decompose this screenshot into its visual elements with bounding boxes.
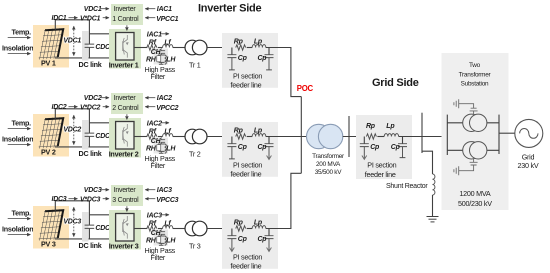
PV array block PV 3 (orange) (33, 206, 69, 249)
PV3 insolation input label (2, 224, 33, 233)
filter shaded band (154, 138, 169, 154)
VDC3 label (63, 219, 81, 226)
CH label (151, 230, 162, 237)
CDC label (95, 44, 111, 51)
IAC3 output label (147, 212, 162, 219)
svg-text:CDC: CDC (95, 44, 111, 51)
svg-text:Inverter 1: Inverter 1 (109, 61, 139, 70)
control block Inverter 3 Control (green) (111, 185, 143, 206)
PI section block 2 (gray) (222, 122, 278, 177)
PV2 temperature input label (12, 118, 32, 127)
svg-text:IDC2: IDC2 (52, 104, 67, 111)
filter shunt capacitor CH (157, 137, 165, 145)
svg-text:Temp.: Temp. (12, 27, 32, 36)
wire PV3+ to DC link (55, 201, 89, 211)
VDC1 measurement arrow (dashed, double-headed) (73, 26, 75, 55)
filter shunt capacitor CH (157, 229, 165, 237)
svg-text:RH: RH (146, 56, 157, 63)
wire DC link to inverter1 top input (89, 33, 115, 35)
svg-text:VDC2: VDC2 (84, 95, 102, 102)
svg-text:Inverter Side: Inverter Side (198, 3, 262, 15)
main transformer caption (312, 153, 345, 176)
transformer 2 neutral ground (454, 159, 478, 175)
transformer Tr 3 (185, 221, 207, 236)
inverter 2 block background (green) (109, 118, 141, 158)
V*DC1 to control arrow (103, 17, 109, 19)
svg-text:RH: RH (146, 145, 157, 152)
Tr 2 caption (189, 150, 201, 159)
filter inductor Lf (163, 45, 173, 48)
svg-text:Rp: Rp (234, 219, 244, 226)
grid PI series inductor Lp (384, 134, 398, 137)
PI section feeder line caption 3 (231, 252, 263, 270)
Lp label (254, 127, 263, 134)
wire PV3- bottom to inverter (55, 238, 116, 240)
RH label (146, 145, 157, 152)
svg-text:Rf: Rf (149, 40, 157, 47)
V*DC3 to control arrow (103, 198, 109, 200)
Rf label (149, 40, 157, 47)
High Pass Filter caption (145, 154, 176, 170)
VPCC3 feedback arrow into control (145, 198, 155, 200)
svg-text:Cp: Cp (370, 144, 380, 151)
VPCC2 feedback arrow into control (145, 106, 155, 108)
svg-text:Inverter 3: Inverter 3 (109, 242, 139, 251)
svg-text:1 Control: 1 Control (112, 16, 139, 23)
shunt reactor coil (433, 174, 435, 195)
PV1 insolation input label (2, 43, 33, 52)
svg-text:1200 MVA: 1200 MVA (459, 189, 490, 198)
PI1 shunt capacitor Cp (left) (227, 48, 236, 70)
svg-text:Cp: Cp (238, 55, 248, 62)
Tr 3 caption (189, 242, 201, 251)
PV2 temperature input arrow (8, 128, 31, 130)
svg-text:Insolation: Insolation (2, 43, 33, 52)
VDC1 label (63, 38, 81, 45)
shunt reactor branch wire (422, 151, 433, 174)
svg-text:Cp: Cp (391, 144, 401, 151)
grid Cp left label (370, 144, 380, 151)
Cp left label (238, 236, 248, 243)
grid PI series resistor Rp (366, 134, 376, 139)
wire grid PI to substation bus (403, 136, 448, 138)
svg-text:feeder line: feeder line (231, 80, 262, 89)
svg-text:PI section: PI section (233, 71, 262, 80)
Inverter 2 caption (109, 150, 139, 159)
svg-text:PI section: PI section (367, 160, 396, 169)
CDC label (95, 225, 111, 232)
grid PI shunt capacitor Cp (right) (398, 137, 407, 158)
Cp right label (258, 236, 268, 243)
VDC2 to control arrow (101, 97, 109, 99)
wire bus to substation transformer 1 (447, 122, 499, 124)
two transformer substation block (gray) (442, 53, 509, 210)
wire bus to substation transformer 2 (447, 149, 499, 151)
svg-text:Inverter 2: Inverter 2 (109, 150, 139, 159)
svg-text:Temp.: Temp. (12, 118, 32, 127)
PI section feeder line caption 1 (231, 71, 263, 89)
svg-text:Lp: Lp (254, 127, 263, 134)
Inverter 1 caption (109, 61, 139, 70)
Grid caption (518, 152, 539, 170)
VPCC1 feedback arrow into control (145, 17, 155, 19)
svg-text:IAC1: IAC1 (157, 6, 172, 13)
filter resistor Rf (147, 134, 157, 139)
control block Inverter 2 Control (green) (111, 93, 143, 114)
Inverter 3 caption (109, 242, 139, 251)
PV3 panel symbol (39, 209, 65, 240)
svg-text:Temp.: Temp. (12, 208, 32, 217)
IAC1 output label (147, 31, 162, 38)
svg-text:CDC: CDC (95, 225, 111, 232)
DC link capacitor CDC1 (85, 20, 95, 58)
control to inverter dashed arrow (126, 114, 128, 119)
wire main transformer to 500kV bus (343, 136, 365, 138)
svg-text:V*DC2: V*DC2 (80, 104, 101, 111)
PI2 series inductor Lp (252, 134, 266, 137)
svg-text:Filter: Filter (151, 161, 166, 170)
filter damping resistor RH (box) (157, 236, 165, 243)
svg-text:PV 2: PV 2 (41, 147, 56, 156)
grid Rp label (366, 123, 376, 130)
IAC1 output arrow (161, 33, 169, 35)
wire Lf to transformer (173, 136, 185, 138)
IAC2 feedback arrow into control (145, 97, 155, 99)
VPCC3 feedback label (156, 197, 178, 204)
IAC3 feedback label (157, 187, 172, 194)
grid PI shunt capacitor Cp (left) (360, 137, 369, 160)
transformer 1 neutral ground (454, 99, 478, 114)
RH label (146, 237, 157, 244)
svg-text:IAC1: IAC1 (147, 31, 162, 38)
PV1 panel symbol (39, 28, 65, 59)
svg-text:VPCC2: VPCC2 (156, 105, 178, 112)
VPCC2 feedback label (156, 105, 178, 112)
VDC2 label (63, 127, 81, 134)
svg-text:Filter: Filter (151, 72, 166, 81)
Lf label (164, 129, 171, 136)
wire inverter2 AC output (134, 136, 147, 138)
DC link shaded band (82, 31, 89, 61)
Rp label (234, 219, 244, 226)
V*DC2 label (80, 104, 101, 111)
svg-text:Insolation: Insolation (2, 134, 33, 143)
filter inductor Lf (163, 134, 173, 137)
wire row1 feeder to POC bus (278, 48, 301, 97)
Shunt Reactor caption (386, 183, 428, 190)
svg-text:feeder line: feeder line (231, 261, 262, 270)
transformer Tr 2 (185, 129, 207, 144)
svg-text:Cp: Cp (238, 144, 248, 151)
svg-text:IAC3: IAC3 (147, 212, 162, 219)
IDC1 label (52, 15, 67, 22)
IDC2 signal arrow (69, 106, 78, 108)
VDC3 to control arrow (101, 189, 109, 191)
POC label (297, 84, 314, 93)
wire PV1- bottom to inverter (55, 57, 116, 59)
PV2 insolation input label (2, 134, 33, 143)
Cp right label (258, 55, 268, 62)
svg-text:VDC2: VDC2 (63, 127, 81, 134)
PV array block PV 2 (orange) (33, 114, 69, 157)
filter inductor Lf (163, 226, 173, 229)
svg-text:IAC2: IAC2 (157, 95, 172, 102)
CDC label (95, 133, 111, 140)
PI3 series inductor Lp (252, 226, 266, 229)
svg-text:feeder line: feeder line (231, 169, 262, 178)
svg-text:Lf: Lf (164, 221, 171, 228)
LH label (166, 56, 176, 63)
VDC1 input label to control (84, 6, 102, 13)
substation transformer 1 (463, 114, 487, 131)
svg-text:V*DC3: V*DC3 (80, 196, 101, 203)
svg-text:VDC1: VDC1 (63, 38, 81, 45)
PV2 panel symbol (39, 117, 65, 148)
wire Tr 3 to PI section (207, 228, 232, 230)
PI1 series inductor Lp (252, 45, 266, 48)
svg-text:Tr 1: Tr 1 (189, 61, 201, 70)
VPCC1 feedback label (156, 16, 178, 23)
V*DC3 label (80, 196, 101, 203)
svg-text:PI section: PI section (233, 160, 262, 169)
PV2 insolation input arrow (8, 144, 31, 146)
IAC1 feedback arrow into control (145, 8, 155, 10)
svg-text:Lp: Lp (254, 38, 263, 45)
wire Rf to Lf (158, 136, 163, 138)
wire inverter3 AC output (134, 228, 147, 230)
svg-text:Rp: Rp (234, 127, 244, 134)
CH label (151, 138, 162, 145)
svg-text:Inverter: Inverter (114, 6, 137, 13)
filter shaded band (154, 49, 169, 65)
svg-text:Cp: Cp (258, 144, 268, 151)
svg-text:Lf: Lf (164, 40, 171, 47)
inverter 3 converter box (116, 214, 134, 242)
filter damping inductor LH (vertical) (165, 144, 167, 153)
svg-text:Filter: Filter (151, 253, 166, 262)
svg-text:Cp: Cp (238, 236, 248, 243)
wire row3 feeder to POC bus (278, 173, 301, 228)
svg-text:Transformer: Transformer (459, 71, 492, 78)
wire DC link to inverter3 top input (89, 214, 115, 216)
svg-text:Rf: Rf (149, 129, 157, 136)
svg-text:VPCC1: VPCC1 (156, 16, 178, 23)
inverter 2 converter box (116, 122, 134, 150)
svg-text:LH: LH (166, 237, 176, 244)
PV3 temperature input arrow (8, 218, 31, 220)
wire PV2- bottom to inverter (55, 146, 116, 148)
svg-text:Transformer: Transformer (312, 153, 345, 160)
grid Lp label (386, 123, 395, 130)
svg-text:2 Control: 2 Control (112, 105, 139, 112)
wire Rf to Lf (158, 228, 163, 230)
Tr 1 caption (189, 61, 201, 70)
POC bus (vertical) (300, 97, 302, 174)
DC link shaded band (82, 212, 89, 242)
DC link capacitor CDC3 (85, 201, 95, 239)
PI section block 3 (gray) (222, 214, 278, 269)
PV3 insolation input arrow (8, 234, 31, 236)
svg-text:DC link: DC link (79, 149, 102, 158)
substation rating caption (458, 189, 492, 208)
Lf label (164, 221, 171, 228)
IAC2 output arrow (161, 122, 169, 124)
wire Rp to Lp (247, 228, 253, 230)
PI section block 1 (gray) (222, 33, 278, 88)
filter resistor Rf (147, 45, 157, 50)
LH label (166, 237, 176, 244)
grid PI section caption (365, 160, 397, 178)
title Grid Side (372, 77, 419, 89)
grid Cp right label (391, 144, 401, 151)
VDC3 measurement arrow (dashed, double-headed) (73, 207, 75, 236)
svg-text:Rf: Rf (149, 221, 157, 228)
svg-text:DC link: DC link (79, 60, 102, 69)
svg-text:Inverter: Inverter (114, 95, 137, 102)
wire PV1+ to DC link (55, 20, 89, 30)
V*DC1 label (80, 15, 101, 22)
filter shunt bottom join and end (159, 243, 165, 245)
substation caption top (459, 62, 492, 88)
transformer Tr 1 (185, 40, 207, 55)
IDC3 label (52, 196, 67, 203)
wire shunt reactor to ground (432, 195, 434, 217)
LH label (166, 145, 176, 152)
Cp left label (238, 144, 248, 151)
filter damping resistor RH (box) (157, 55, 165, 62)
svg-text:230 kV: 230 kV (518, 161, 539, 170)
DC link shaded band (82, 120, 89, 150)
svg-text:200 MVA: 200 MVA (316, 161, 341, 168)
filter damping inductor LH (vertical) (165, 236, 167, 245)
svg-text:PI section: PI section (233, 252, 262, 261)
VDC2 input label to control (84, 95, 102, 102)
wire Tr 2 to PI section (207, 136, 232, 138)
wire Rp to Lp (247, 136, 253, 138)
wire 230kV bus to grid source (499, 132, 515, 134)
substation 500kV bus (446, 115, 448, 155)
Rp label (234, 38, 244, 45)
wire PV2+ to DC link (55, 109, 89, 119)
wire grid Rp to Lp (377, 136, 384, 138)
svg-text:Grid Side: Grid Side (372, 77, 419, 89)
wire inverter1 AC output (134, 47, 147, 49)
title Inverter Side (198, 3, 262, 15)
svg-text:VDC3: VDC3 (63, 219, 81, 226)
filter shaded band (154, 230, 169, 246)
wire Rf to Lf (158, 47, 163, 49)
filter damping resistor RH (box) (157, 144, 165, 151)
filter resistor Rf (147, 226, 157, 231)
Rf label (149, 129, 157, 136)
control block Inverter 1 Control (green) (111, 4, 143, 25)
wire row2 feeder through POC to main transformer (278, 136, 307, 138)
IAC3 feedback arrow into control (145, 189, 155, 191)
PI2 shunt capacitor Cp (right) (265, 137, 279, 160)
High Pass Filter caption (145, 65, 176, 81)
IGBT symbol inside inverter 2 (123, 124, 129, 147)
svg-text:VDC1: VDC1 (84, 6, 102, 13)
PI1 shunt capacitor Cp (right) (265, 48, 279, 70)
svg-text:LH: LH (166, 56, 176, 63)
PI3 shunt capacitor Cp (right) (265, 229, 279, 252)
RH label (146, 56, 157, 63)
svg-text:3 Control: 3 Control (112, 197, 139, 204)
Cp right label (258, 144, 268, 151)
svg-text:V*DC1: V*DC1 (80, 15, 101, 22)
grid source circle (515, 119, 543, 147)
PI3 series resistor Rp (236, 226, 246, 231)
wire DC link to inverter2 top input (89, 122, 115, 124)
shunt reactor bus (421, 113, 423, 153)
control to inverter dashed arrow (126, 206, 128, 211)
svg-text:PV 3: PV 3 (41, 239, 56, 248)
ground (shunt reactor) (427, 217, 439, 222)
main transformer 200 MVA 35/500 kV (307, 124, 343, 148)
svg-text:Rp: Rp (234, 38, 244, 45)
DC link caption (79, 241, 102, 250)
svg-text:CDC: CDC (95, 133, 111, 140)
PI section feeder line caption 2 (231, 160, 263, 178)
VDC1 to control arrow (101, 8, 109, 10)
svg-text:LH: LH (166, 145, 176, 152)
PI3 shunt capacitor Cp (left) (227, 229, 236, 252)
wire Tr 1 to PI section (207, 47, 232, 49)
svg-text:Shunt Reactor: Shunt Reactor (386, 183, 428, 190)
svg-text:IAC2: IAC2 (147, 120, 162, 127)
svg-text:RH: RH (146, 237, 157, 244)
svg-text:DC link: DC link (79, 241, 102, 250)
IAC2 output label (147, 120, 162, 127)
filter shunt bottom join and end (159, 151, 165, 153)
PV1 insolation input arrow (8, 53, 31, 55)
svg-text:Tr 2: Tr 2 (189, 150, 201, 159)
IAC3 output arrow (161, 214, 169, 216)
V*DC2 to control arrow (103, 106, 109, 108)
svg-text:IDC1: IDC1 (52, 15, 67, 22)
svg-text:POC: POC (297, 84, 314, 93)
IAC1 feedback label (157, 6, 172, 13)
inverter 3 block background (green) (109, 210, 141, 250)
svg-text:Cp: Cp (258, 55, 268, 62)
DC link capacitor CDC2 (85, 109, 95, 147)
IDC2 label (52, 104, 67, 111)
CH label (151, 49, 162, 56)
Cp left label (238, 55, 248, 62)
DC link caption (79, 149, 102, 158)
DC link caption (79, 60, 102, 69)
grid PI section block (gray) (356, 115, 412, 179)
svg-text:Cp: Cp (258, 236, 268, 243)
svg-text:Insolation: Insolation (2, 224, 33, 233)
wire Lf to transformer (173, 47, 185, 49)
svg-text:Inverter: Inverter (114, 187, 137, 194)
IGBT symbol inside inverter 3 (123, 216, 129, 239)
wire Rp to Lp (247, 47, 253, 49)
inverter 1 block background (green) (109, 29, 141, 69)
svg-text:Two: Two (469, 62, 481, 69)
svg-text:500/230 kV: 500/230 kV (458, 199, 492, 208)
IGBT symbol inside inverter 1 (123, 35, 129, 58)
svg-text:PV 1: PV 1 (41, 58, 56, 67)
svg-text:IAC3: IAC3 (157, 187, 172, 194)
Rf label (149, 221, 157, 228)
PI2 series resistor Rp (236, 134, 246, 139)
PV1 temperature input arrow (8, 37, 31, 39)
Lp label (254, 219, 263, 226)
substation 230kV bus (498, 115, 500, 154)
control to inverter dashed arrow (126, 25, 128, 30)
